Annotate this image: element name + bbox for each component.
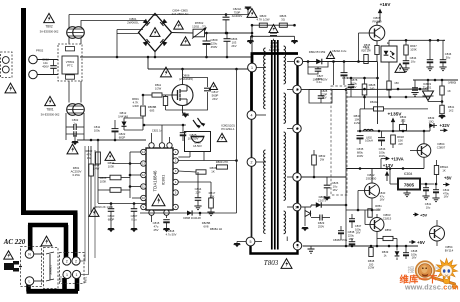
svg-text:+5V: +5V <box>417 240 425 245</box>
svg-text:www.dzsc.com: www.dzsc.com <box>404 283 459 292</box>
svg-text:AC 220: AC 220 <box>3 238 26 246</box>
svg-text:240: 240 <box>370 86 375 90</box>
svg-text:103K: 103K <box>108 164 115 168</box>
mains plug <box>4 261 19 272</box>
gate wire <box>143 94 152 96</box>
fuse S801 <box>400 125 407 131</box>
inductor L802 <box>364 129 374 131</box>
terminal box N L dashed <box>21 247 42 287</box>
ground near pin5 <box>237 241 246 243</box>
optocoupler IC802 box <box>185 132 211 152</box>
svg-text:R808A 1Ω: R808A 1Ω <box>210 227 222 231</box>
thick bottom mains return <box>27 289 79 294</box>
svg-text:7805: 7805 <box>404 183 415 188</box>
degauss coil dashed box left edge <box>1 52 13 78</box>
bottom +5V rail <box>303 245 418 247</box>
snubber loop C827 <box>308 62 328 68</box>
emitter D863 down <box>376 232 378 247</box>
svg-text:2SD850: 2SD850 <box>366 177 377 181</box>
svg-text:BY114: BY114 <box>445 249 454 253</box>
secondary winding c <box>284 132 286 200</box>
svg-text:+5V: +5V <box>420 213 428 218</box>
IC801 box <box>146 148 173 210</box>
svg-text:1/2W: 1/2W <box>354 121 361 125</box>
resistor 1K upper <box>440 86 444 95</box>
svg-text:C1073: C1073 <box>318 198 327 202</box>
svg-text:16V: 16V <box>412 256 417 260</box>
capacitor C809 220u 450V <box>203 40 211 42</box>
vertical from D802 row <box>333 62 335 86</box>
IC left pins <box>141 149 146 154</box>
bridge diode c <box>143 39 150 46</box>
secondary winding d <box>284 211 286 234</box>
drain rail <box>148 68 248 70</box>
svg-text:IC801: IC801 <box>161 174 166 185</box>
svg-text:2KV: 2KV <box>212 97 218 101</box>
fuse F801 <box>89 164 94 176</box>
MOSFET D806 <box>172 85 193 106</box>
core line 1 <box>271 40 273 250</box>
resistor R847 <box>404 45 408 55</box>
svg-text:16V: 16V <box>380 198 385 202</box>
vertical link rails <box>147 57 149 69</box>
svg-text:+32V: +32V <box>440 123 450 128</box>
svg-text:C1815: C1815 <box>383 217 392 221</box>
resistor R852A <box>434 166 438 175</box>
svg-text:D808 1N4148: D808 1N4148 <box>183 216 201 220</box>
top link <box>347 77 378 79</box>
svg-text:50u: 50u <box>446 55 451 59</box>
optocoupler phototransistor dome <box>192 137 204 143</box>
watermark stamp circle <box>416 261 435 280</box>
opto bottom wire <box>388 62 390 81</box>
warning triangle left edge bottom <box>4 251 14 259</box>
svg-text:682P: 682P <box>119 135 126 139</box>
wire PR02a to PTC box <box>37 59 58 61</box>
secondary bus junction dots <box>296 60 298 62</box>
svg-text:2W: 2W <box>320 157 325 161</box>
resistor R826 <box>279 23 287 27</box>
svg-text:100uH: 100uH <box>365 139 373 143</box>
rail from filter to startup row <box>77 139 146 141</box>
svg-text:4n7 250V AC: 4n7 250V AC <box>171 12 188 16</box>
svg-text:C829A 0.2u: C829A 0.2u <box>332 49 347 53</box>
svg-text:2KV: 2KV <box>321 96 326 100</box>
warning triangle near C823A <box>247 9 257 18</box>
svg-text:5: 5 <box>250 240 252 244</box>
ground D829 <box>302 227 309 231</box>
capacitor C806 <box>224 38 231 40</box>
svg-text:+13VA: +13VA <box>391 157 404 162</box>
snubber C817 wire <box>183 78 208 88</box>
svg-text:16V: 16V <box>356 231 361 235</box>
secondary pin 9 <box>294 57 302 65</box>
warning triangle in IC <box>152 194 165 205</box>
primary lower vertical <box>251 119 253 158</box>
svg-text:3Ω: 3Ω <box>281 17 285 21</box>
ground below filter <box>72 141 79 145</box>
bold bottom frame <box>251 246 298 254</box>
bottom rail under IC <box>140 212 237 214</box>
transformer pin 4 <box>247 111 256 120</box>
+5V arrow bottom <box>409 241 413 243</box>
secondary pin 8 <box>293 173 301 181</box>
svg-text:+13V: +13V <box>383 163 393 168</box>
svg-text:PR02: PR02 <box>36 49 44 53</box>
startup rail <box>77 139 146 141</box>
SCR D829 <box>305 211 311 217</box>
svg-text:PTC: PTC <box>67 64 73 68</box>
wire PR02b to PTC box <box>37 74 58 76</box>
switch SW801 contacts <box>46 252 54 254</box>
svg-text:1: 1 <box>66 273 68 277</box>
wire N to switch <box>34 253 44 255</box>
connector pin 1a <box>63 270 71 278</box>
capacitor near D829 <box>319 215 321 221</box>
thick mains bus vertical left <box>21 8 26 211</box>
warning triangle D802 <box>327 51 335 58</box>
bridge diode d <box>160 39 167 46</box>
primary winding <box>264 48 266 109</box>
thick wire above N terminal <box>28 225 33 250</box>
svg-text:16V: 16V <box>349 237 354 241</box>
capacitor C803 <box>66 133 84 135</box>
wires bridge AC input <box>117 29 143 31</box>
capacitor C835 <box>357 135 364 137</box>
svg-text:T802: T802 <box>45 25 52 29</box>
svg-text:1: 1 <box>76 273 78 277</box>
thick wire below L terminal <box>26 285 31 292</box>
svg-text:103K: 103K <box>410 47 417 51</box>
+13VA arrow <box>384 158 387 160</box>
secondary pin 6 <box>293 124 301 132</box>
diode D808 <box>187 210 192 215</box>
svg-text:N: N <box>28 253 31 257</box>
wire row to B135 rail <box>309 89 346 91</box>
svg-text:4: 4 <box>251 114 253 118</box>
snubber loop C828 <box>309 90 332 104</box>
wire bridge plus output <box>172 32 194 35</box>
ground snubber left <box>247 40 254 44</box>
ground MOSFET source <box>182 114 189 118</box>
wire connector to fuse line b <box>81 207 89 275</box>
degauss coil loops <box>2 57 9 64</box>
svg-text:16V: 16V <box>333 188 338 192</box>
svg-text:820 1W: 820 1W <box>361 48 371 52</box>
feedback wire from pin <box>178 160 236 162</box>
power switch SW801 dashed box <box>44 248 59 289</box>
emitter feed down <box>377 62 379 125</box>
capacitor C836 <box>378 137 385 139</box>
wire bridge bottom to rail <box>154 52 156 58</box>
wire emitter D882 <box>371 198 373 210</box>
capacitor C808 mid <box>270 32 277 34</box>
thick mains bus horizontal outer <box>21 210 78 215</box>
secondary winding b <box>284 93 286 123</box>
top rail to bridge <box>69 14 226 16</box>
resistor R804 row1 <box>110 175 121 180</box>
wire to bottom row <box>98 203 146 205</box>
resistor R820 <box>259 23 267 27</box>
svg-text:1/4W: 1/4W <box>132 104 139 108</box>
svg-text:T801: T801 <box>46 108 53 112</box>
svg-text:搜: 搜 <box>408 265 415 274</box>
svg-text:18-50V: 18-50V <box>193 144 202 148</box>
watermark mascot face <box>441 265 453 277</box>
resistor R818 <box>391 135 396 144</box>
svg-text:220: 220 <box>376 207 381 211</box>
transformer pin 2 <box>247 158 256 167</box>
node C806 <box>226 32 229 35</box>
svg-text:400V: 400V <box>42 64 49 68</box>
wire RT802 to snubber <box>205 32 253 34</box>
IC bottom pin wires <box>151 215 153 222</box>
svg-text:1K: 1K <box>442 168 445 172</box>
wire T802 left down <box>68 38 70 45</box>
svg-text:2KV: 2KV <box>231 44 236 48</box>
ground snubber right <box>291 40 298 44</box>
connector pin 2a <box>63 257 71 265</box>
long feedback vertical <box>345 90 347 247</box>
wire 16V row <box>303 61 378 63</box>
lower link rail <box>347 96 430 98</box>
svg-text:3A-E30300-002: 3A-E30300-002 <box>41 113 60 117</box>
capacitor C823A top <box>223 16 230 18</box>
svg-text:2: 2 <box>75 260 77 264</box>
svg-text:683: 683 <box>150 108 155 112</box>
svg-text:6V8: 6V8 <box>204 224 209 228</box>
svg-text:C821 1n: C821 1n <box>152 129 163 133</box>
warning triangle below bridge <box>181 37 191 45</box>
warning triangle R803 <box>105 152 115 161</box>
wire plug to terminal box <box>19 266 22 268</box>
warning triangle T802 <box>44 13 55 22</box>
warning triangle T803 <box>281 259 292 269</box>
connector pin 2b <box>72 257 80 265</box>
svg-text:450V: 450V <box>211 45 218 49</box>
IC804 7805 box <box>398 179 420 190</box>
resistor R838 <box>369 248 373 257</box>
transformer pin 1 <box>248 63 257 72</box>
svg-text:10Ω: 10Ω <box>429 119 434 123</box>
svg-text:150: 150 <box>394 81 399 85</box>
resistor R846 <box>387 81 391 90</box>
wire snubber bottom <box>250 35 294 37</box>
+5V standby arrow <box>413 214 416 216</box>
bridge diode b <box>160 19 167 26</box>
thermistor element top <box>66 47 75 51</box>
svg-text:(V880): (V880) <box>448 81 456 85</box>
warning triangle near C817 <box>210 82 218 89</box>
TL431 symbol <box>423 91 434 101</box>
thick wire connector pin1 right <box>75 278 80 291</box>
wire IC to feedback vertical <box>236 69 238 213</box>
bold link left down <box>251 54 254 64</box>
capacitor C838A <box>338 230 344 232</box>
resistor R832 <box>312 155 317 165</box>
warning triangle bottom left <box>89 208 99 217</box>
capacitor C843 <box>403 252 409 254</box>
thick inner horizontal <box>28 223 68 228</box>
svg-text:+16V: +16V <box>380 2 392 7</box>
svg-text:+8V: +8V <box>444 176 452 181</box>
wire connector to fuse line a <box>80 207 85 261</box>
svg-text:1/2W: 1/2W <box>368 266 375 270</box>
chassis ground top <box>245 7 252 11</box>
capacitor C819 <box>348 84 355 86</box>
zener D856 <box>395 251 400 256</box>
warning triangle snubber <box>269 25 278 33</box>
transistor D864 <box>417 144 431 158</box>
svg-text:4.7u 50V: 4.7u 50V <box>166 232 177 236</box>
capacitor C817 <box>204 87 211 89</box>
wire snubber top <box>252 24 295 26</box>
IC top wires <box>151 133 153 143</box>
gate network vertical <box>142 95 144 105</box>
secondary winding a <box>284 46 286 84</box>
warning triangle right of bridge top <box>174 21 184 29</box>
svg-text:10u: 10u <box>426 205 431 209</box>
svg-text:120Ω→7Ω: 120Ω→7Ω <box>192 25 206 29</box>
wire L to switch <box>34 280 44 282</box>
resistor R805 row2 <box>110 188 121 193</box>
secondary bold bus <box>296 58 298 251</box>
svg-text:2W: 2W <box>398 142 403 146</box>
capacitor C836b <box>349 218 355 220</box>
node C809 <box>205 32 208 35</box>
svg-text:10u: 10u <box>411 59 416 63</box>
bridge rectifier D801 diamond <box>139 14 172 52</box>
PTC dashed box <box>58 44 82 81</box>
capacitor left of TL431 <box>414 80 416 88</box>
wire base D882 <box>358 190 365 192</box>
transistor D854 <box>430 226 445 241</box>
svg-text:F802: F802 <box>59 275 63 282</box>
IC bottom pins <box>149 210 154 215</box>
svg-text:R850: R850 <box>385 228 392 232</box>
wire +13 rail <box>346 168 424 170</box>
connector PR02 pin a <box>29 55 38 64</box>
core line 3 <box>277 40 279 250</box>
svg-text:2: 2 <box>251 161 253 165</box>
IC right pins <box>173 149 178 154</box>
svg-text:160V: 160V <box>357 154 364 158</box>
transformer pin 5 <box>246 237 255 246</box>
main 135V output rail <box>357 130 430 132</box>
thick wire connector pin1 left <box>62 278 67 291</box>
feedback dashed box <box>331 86 347 195</box>
warning triangle right of opto <box>395 64 405 73</box>
warning triangle left edge mid <box>5 83 16 93</box>
svg-text:SW801: SW801 <box>49 265 53 275</box>
svg-text:1/4W: 1/4W <box>93 166 100 170</box>
transformer T802 degauss <box>67 27 79 39</box>
transformer T801 line filter <box>67 104 79 116</box>
svg-text:1W: 1W <box>87 156 92 160</box>
fuse feed wires <box>94 207 96 258</box>
opto pin wires <box>189 152 191 158</box>
wire row3 pin8 <box>301 176 346 178</box>
resistor R841 lower <box>440 105 444 114</box>
row 210 wire <box>346 209 380 211</box>
aux top rail <box>389 39 445 41</box>
svg-text:0.2u: 0.2u <box>316 80 322 84</box>
warning triangle T801 <box>45 96 56 105</box>
svg-text:TDA16846: TDA16846 <box>153 170 158 192</box>
secondary stubs <box>287 61 294 63</box>
thick inner vertical to connector pin2a <box>64 225 69 258</box>
capacitor C839 <box>423 187 429 189</box>
svg-text:R840A: R840A <box>370 100 378 104</box>
svg-text:IC804: IC804 <box>404 172 413 176</box>
svg-text:16V: 16V <box>444 195 449 199</box>
svg-text:TL431: TL431 <box>423 86 432 90</box>
wire row4 pin10 <box>301 206 311 208</box>
connector P801 dashed box <box>60 253 85 284</box>
capacitor C810 <box>108 208 115 210</box>
thermistor element bottom <box>66 75 75 79</box>
135V rail right <box>346 88 428 91</box>
svg-text:103K: 103K <box>100 179 107 183</box>
warning triangle in bridge <box>150 28 160 37</box>
warning triangle above switch <box>41 236 52 246</box>
svg-text:2W06GL: 2W06GL <box>127 21 139 25</box>
wire PTC down to T801 <box>68 81 70 103</box>
thermistor RT802 <box>193 29 205 37</box>
capacitor C825b <box>324 184 331 186</box>
resistor R851 <box>368 209 372 218</box>
svg-text:C3807: C3807 <box>437 146 446 150</box>
IC804 ground <box>406 190 408 194</box>
bridge diode a <box>143 19 150 26</box>
bold link top <box>251 52 298 55</box>
bold primary vertical <box>250 72 253 111</box>
wire pin2 down <box>251 166 253 237</box>
svg-text:1: 1 <box>251 66 253 70</box>
PTC VT801 box <box>62 56 78 74</box>
svg-text:160V: 160V <box>379 154 386 158</box>
wires below T801 <box>65 113 67 140</box>
wire 135V row pin7 <box>301 89 309 91</box>
vertical snubber left <box>251 25 253 52</box>
ground pin3 <box>310 246 312 249</box>
wire T802 lower to bridge <box>81 21 146 28</box>
core line 2 <box>274 40 276 250</box>
svg-text:100u: 100u <box>94 128 101 132</box>
resistor R828 <box>362 84 367 95</box>
svg-text:1K2: 1K2 <box>449 108 454 112</box>
terminal N <box>25 250 34 259</box>
wire T802 to top rail <box>68 15 70 28</box>
watermark mascot stick <box>431 276 456 285</box>
thick outer vertical to connector pin2b <box>73 213 78 258</box>
base network D805 <box>359 32 370 34</box>
svg-text:250V: 250V <box>318 224 324 228</box>
opto top wire <box>388 40 390 46</box>
svg-text:3A-E30300-002: 3A-E30300-002 <box>40 30 59 34</box>
optocoupler LED box <box>381 46 397 62</box>
watermark mascot body <box>443 278 450 284</box>
capacitor C842 <box>433 189 439 191</box>
capacitor C844 <box>403 60 410 62</box>
resistor R806 <box>196 170 206 174</box>
capacitor C807 <box>131 208 138 210</box>
watermark mascot mane <box>435 258 457 280</box>
IC804 wires <box>390 183 398 185</box>
terminal L <box>25 277 34 286</box>
svg-text:L: L <box>29 280 31 284</box>
IC left pin wires <box>130 151 141 153</box>
